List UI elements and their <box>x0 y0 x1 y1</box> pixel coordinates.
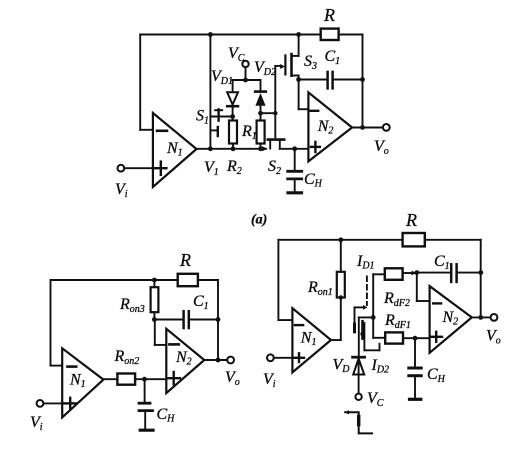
wire N2 minus input <box>416 273 418 301</box>
svg-text:R: R <box>323 5 335 25</box>
wire left vertical to N1 inverting input <box>139 35 141 130</box>
svg-text:VD: VD <box>333 357 351 376</box>
terminal Vo <box>491 314 498 321</box>
node output junction <box>360 125 365 130</box>
resistor R <box>403 233 425 246</box>
node switch junction <box>371 315 376 320</box>
wire to VD1 anode <box>232 80 234 92</box>
wire to VD2 cathode <box>260 80 262 91</box>
switch S1 <box>210 116 232 118</box>
diode VD1 <box>227 92 238 104</box>
wire left vertical <box>277 240 279 320</box>
ground bar CH <box>288 191 302 194</box>
wire R to right corner <box>339 34 363 36</box>
wire R to corner <box>198 279 218 281</box>
wire Vi to N1 plus <box>124 167 153 169</box>
node CH junction <box>142 377 147 382</box>
switch S3 <box>280 64 285 69</box>
switch gate lead <box>355 306 364 308</box>
ground bar CH <box>410 398 421 401</box>
node CH junction <box>292 146 297 151</box>
node VD1 bottom junction <box>230 114 235 119</box>
switch S2 <box>268 138 284 141</box>
terminal Vo <box>227 357 234 364</box>
node C1 left junction <box>152 317 157 322</box>
resistor R2 vertical <box>229 121 237 144</box>
svg-text:Ron1: Ron1 <box>307 279 333 298</box>
svg-text:R2: R2 <box>226 158 242 177</box>
node C1 left junction <box>414 270 419 275</box>
wire N2 output <box>472 316 491 318</box>
svg-text:C1: C1 <box>193 293 209 312</box>
node CH junction <box>413 336 418 341</box>
node top-left junction <box>208 32 213 37</box>
capacitor C1 <box>450 264 453 282</box>
svg-text:R: R <box>405 210 417 230</box>
node R2 bottom junction <box>231 146 236 151</box>
svg-text:CH: CH <box>304 171 323 190</box>
wire top horizontal <box>140 34 321 36</box>
capacitor CH <box>294 149 296 170</box>
svg-text:(a): (a) <box>251 213 267 228</box>
svg-text:C1: C1 <box>325 48 341 67</box>
resistor RdF1 <box>385 332 403 343</box>
node C1 right junction <box>360 77 365 82</box>
resistor R <box>178 274 198 286</box>
terminal Vi input <box>118 165 125 172</box>
svg-text:Vo: Vo <box>225 369 240 388</box>
svg-text:Vi: Vi <box>263 371 276 390</box>
wire node V1 vertical <box>209 35 211 149</box>
node V1 bottom junction <box>208 146 213 151</box>
wire VC down <box>245 67 247 80</box>
op-amp N1 <box>62 348 103 417</box>
waveform pulse <box>345 412 372 433</box>
switch channel <box>358 317 360 356</box>
wire right feedback vertical <box>362 35 364 128</box>
svg-text:V1: V1 <box>204 159 219 178</box>
terminal VC control <box>242 61 248 67</box>
wire to RdF2 <box>372 274 374 317</box>
wire S2/S3 gate net <box>261 112 276 114</box>
svg-text:Ron2: Ron2 <box>114 348 140 367</box>
node Ron3 top junction <box>152 278 157 283</box>
svg-text:S2: S2 <box>268 158 281 177</box>
op-amp N2 <box>166 329 204 393</box>
node gate tee junction <box>273 111 277 115</box>
wire VC node horizontal <box>233 79 261 81</box>
svg-text:Vi: Vi <box>115 181 128 200</box>
wire top horizontal <box>278 239 402 241</box>
capacitor CH <box>414 338 416 366</box>
wire to RdF1 <box>372 317 374 337</box>
node output junction <box>216 358 221 363</box>
wire N2 inverting input <box>298 80 300 110</box>
svg-text:Ron3: Ron3 <box>119 296 145 315</box>
diode VD2 <box>255 90 266 93</box>
resistor R1 vertical <box>257 121 265 144</box>
capacitor C1 <box>154 319 183 321</box>
terminal Vo output <box>383 124 390 131</box>
svg-text:R1: R1 <box>241 123 257 142</box>
svg-text:S1: S1 <box>196 108 209 127</box>
wire N2 output <box>352 127 383 129</box>
terminal Vi <box>267 354 274 361</box>
node Ron1 top junction <box>338 237 343 242</box>
svg-text:CH: CH <box>427 366 446 385</box>
wire to C1 <box>299 79 328 81</box>
resistor Ron3 vertical <box>153 280 155 287</box>
switch source hook <box>363 323 365 350</box>
node S3 drain top junction <box>296 32 301 37</box>
svg-text:RdF2: RdF2 <box>383 290 410 309</box>
wire top horizontal <box>51 279 178 281</box>
svg-text:Vi: Vi <box>30 414 43 433</box>
arrow on bus <box>262 146 268 151</box>
op-amp N2 <box>308 92 352 161</box>
resistor R (top) <box>321 29 339 40</box>
resistor RdF2 <box>385 268 403 280</box>
wire right vertical <box>217 280 219 360</box>
wire left vertical <box>50 280 52 366</box>
svg-text:VC: VC <box>228 45 245 64</box>
node output junction <box>478 315 483 320</box>
terminal Vi <box>37 400 44 407</box>
svg-text:VD2: VD2 <box>254 59 276 78</box>
svg-text:ID2: ID2 <box>371 357 390 376</box>
wire N1 output <box>331 339 341 341</box>
wire to N1 minus <box>140 129 153 131</box>
capacitor C1 <box>326 72 329 89</box>
resistor Ron2 <box>117 374 135 385</box>
node S3 source junction <box>296 77 301 82</box>
wire N2 output <box>204 359 227 361</box>
op-amp N1 <box>153 113 197 187</box>
node VC junction <box>243 78 248 83</box>
node R1 bottom junction <box>258 146 263 151</box>
svg-text:S3: S3 <box>304 53 317 72</box>
wire right vertical <box>480 240 482 318</box>
svg-text:CH: CH <box>157 406 176 425</box>
node VD2 bottom junction <box>258 111 263 116</box>
ground bar CH <box>140 429 153 432</box>
wire N2 minus input <box>154 320 156 345</box>
svg-text:VC: VC <box>367 390 384 409</box>
node C1 right junction <box>478 270 483 275</box>
svg-text:ID1: ID1 <box>356 253 375 272</box>
svg-text:Vo: Vo <box>374 138 389 157</box>
node C1 right junction <box>216 317 221 322</box>
terminal VC <box>355 394 361 400</box>
svg-text:VD1: VD1 <box>211 68 233 87</box>
svg-text:RdF1: RdF1 <box>384 312 411 331</box>
wire output bus left of S2 <box>197 148 267 150</box>
diode VD1 <box>353 356 365 359</box>
op-amp N1 <box>292 308 331 372</box>
capacitor CH <box>144 379 146 402</box>
wire output bus right of S2 <box>280 148 309 150</box>
op-amp N2 <box>430 286 472 353</box>
dashed current ID1 <box>366 277 368 306</box>
svg-text:R: R <box>179 250 191 270</box>
wire N1 output <box>103 378 117 380</box>
svg-text:C1: C1 <box>434 253 450 272</box>
resistor Ron1 vertical <box>340 240 342 272</box>
svg-text:Vo: Vo <box>486 328 501 347</box>
